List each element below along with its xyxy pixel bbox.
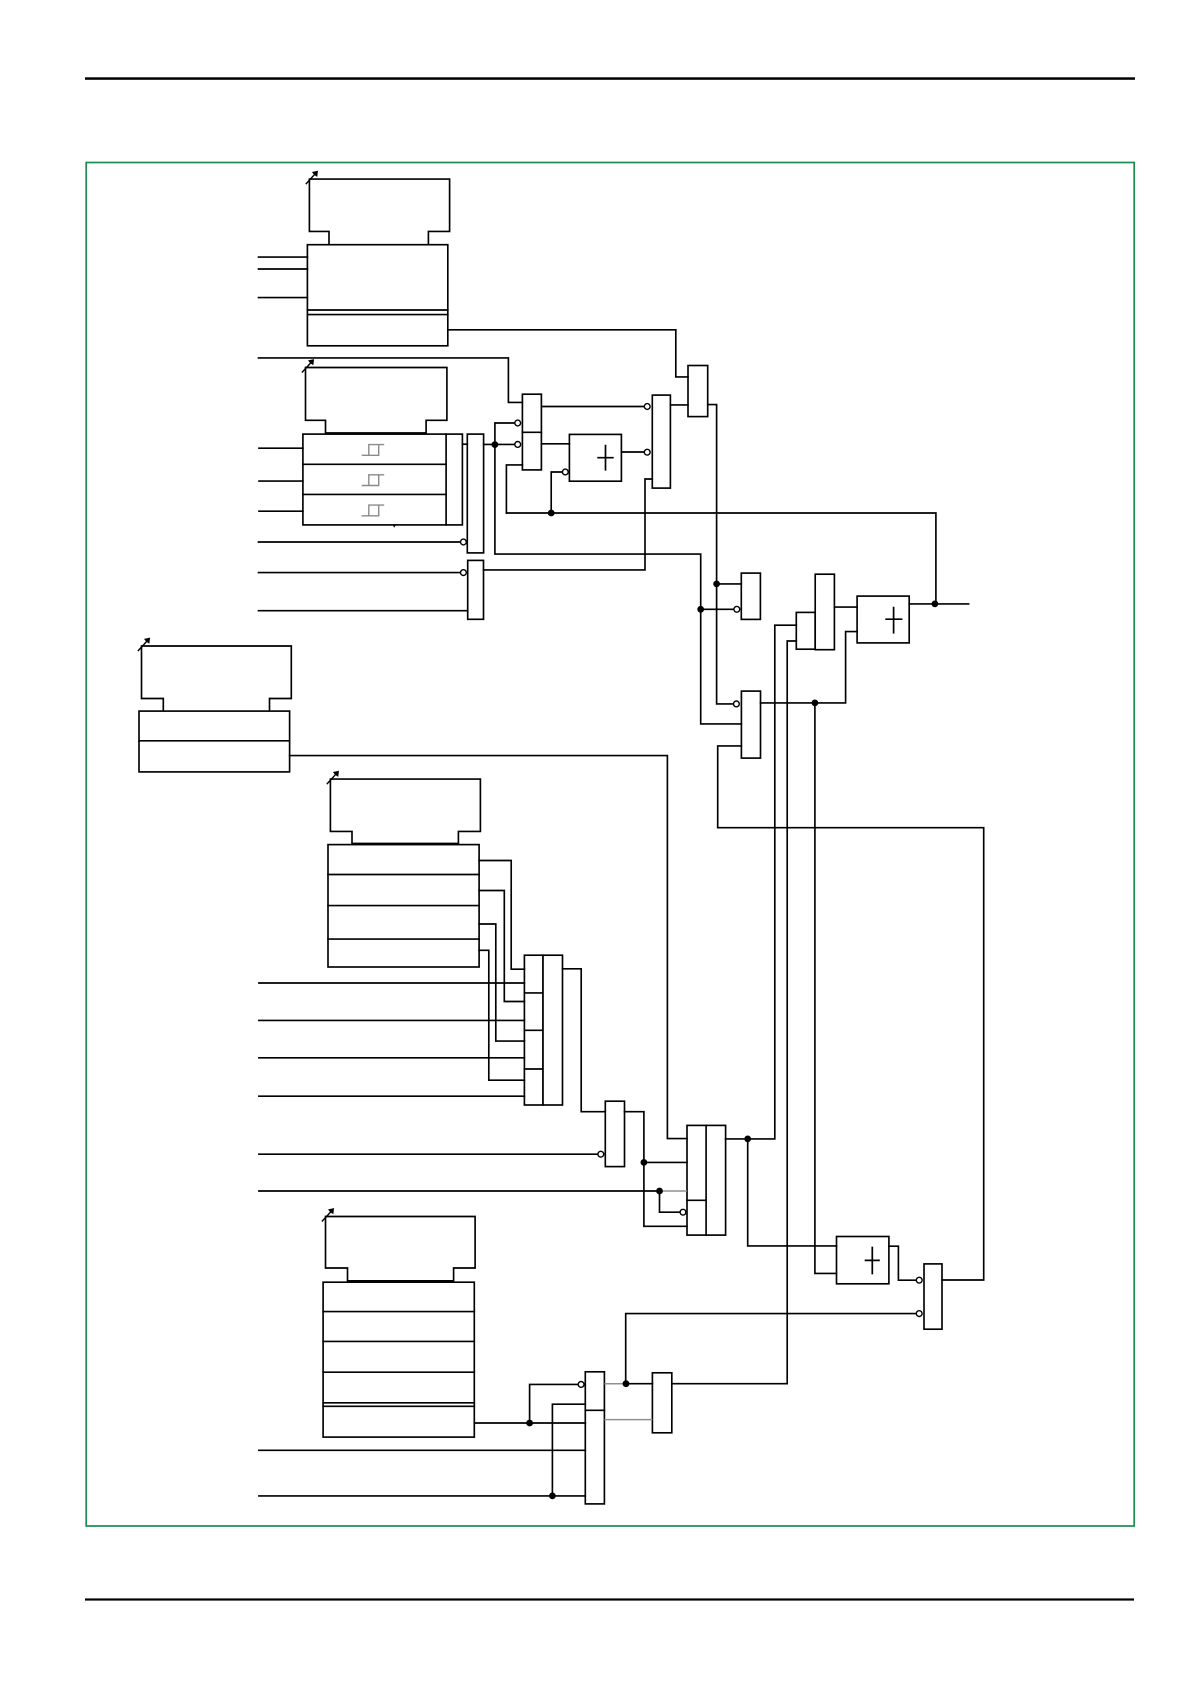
U7 cell divider xyxy=(522,431,541,433)
junction node I xyxy=(744,1136,751,1143)
wire input h to bubble of U5 xyxy=(259,541,461,543)
wire node C branch to U11 input xyxy=(717,583,742,585)
edge selector block U6 xyxy=(468,560,484,619)
wire U19 row1 output to U20 cell1 xyxy=(479,861,524,970)
hysteresis glyph U4 row1 xyxy=(362,445,385,456)
wire U7 upper output to bubble of U9 xyxy=(541,406,643,408)
U23 left cell divider xyxy=(687,1199,706,1201)
mux block U10 xyxy=(688,366,708,417)
wire input j to U6 xyxy=(259,610,468,612)
wire node B branch up to bubble of adder U8 xyxy=(551,472,562,513)
U2 double separator line upper xyxy=(307,309,447,311)
wire adder U8 output to bubble of U9 xyxy=(621,451,643,453)
wire U7 lower output to adder U8 xyxy=(541,443,569,445)
U19 row divider 1 xyxy=(328,874,479,876)
U23 column divider xyxy=(705,1125,707,1235)
inverter bubble U12 xyxy=(734,701,740,707)
wire gray node H to U23 xyxy=(660,1190,688,1192)
preload shadow register hat U3 xyxy=(306,368,447,433)
wire U19 row3 output to U20 cell3 xyxy=(479,924,524,1041)
wire input k to U20 cell1 xyxy=(259,982,525,984)
U27 double line lower xyxy=(323,1405,474,1407)
wire node K branch up to bubble of U28 xyxy=(530,1384,578,1423)
register file U27 (4 rows) xyxy=(323,1282,474,1437)
wire U9 output to U10 xyxy=(670,404,688,406)
preload shadow register hat U26 xyxy=(326,1217,476,1281)
wire U12 output to node E and up to adder U15 lower input xyxy=(761,632,858,703)
wire adder U24 output to bubble of U25 xyxy=(889,1246,916,1280)
inverter bubble adder U8 xyxy=(562,469,568,475)
U27 row divider 1 xyxy=(323,1311,474,1313)
wire input e to U4 row1 xyxy=(259,447,303,449)
wire input g to U4 row3 xyxy=(259,510,303,512)
inverter bubble U7 lower xyxy=(515,442,521,448)
wire node G branch to U23 xyxy=(644,1161,687,1163)
wire U5 output to node A and bubble of U7 lower cell xyxy=(484,443,515,445)
wire gray U28 lower output to U29 xyxy=(604,1419,652,1421)
U27 row divider 2 xyxy=(323,1340,474,1342)
preload arrow on hat U16 xyxy=(138,642,147,651)
junction node H xyxy=(656,1188,663,1195)
gate block U29 xyxy=(652,1373,671,1433)
inverter bubble U28 xyxy=(578,1382,584,1388)
wire node J to U29 xyxy=(626,1383,652,1385)
wire U6 output up to U9 bottom input xyxy=(484,479,653,570)
preload arrow on hat U18 xyxy=(327,775,336,784)
inverter bubble U11 xyxy=(734,606,740,612)
wire U27 output to U28 with node K branch xyxy=(474,1422,585,1424)
wire input c to U2 xyxy=(259,297,308,299)
wire node E branch down to adder U24 lower input xyxy=(815,703,837,1274)
wire input m to U20 cell3 xyxy=(259,1057,525,1059)
junction node F xyxy=(932,601,939,608)
mux output column U21 xyxy=(543,955,563,1105)
U17 divider xyxy=(139,740,290,742)
mux block U13 xyxy=(796,612,815,649)
wire node D branch to bubble of U11 xyxy=(701,608,734,610)
figure border frame xyxy=(86,163,1134,1527)
wire input n to U20 cell4 xyxy=(259,1095,525,1097)
preload arrow on hat U1 xyxy=(306,175,315,184)
junction node J xyxy=(623,1380,630,1387)
gate block U25 xyxy=(924,1264,942,1329)
adder U24 xyxy=(837,1237,889,1284)
U4 row divider 2 xyxy=(303,493,446,495)
preload shadow register hat U16 xyxy=(142,646,292,711)
junction node G xyxy=(641,1159,648,1166)
wire gray U28 upper output to node J xyxy=(604,1383,626,1385)
hysteresis glyph U4 row3 xyxy=(362,505,385,516)
gate block U28 (two cells) xyxy=(585,1372,604,1504)
wire node L branch up to U28 xyxy=(552,1404,585,1496)
wire U21 output down to U22 input xyxy=(563,969,606,1112)
inverter bubble U6 xyxy=(461,570,467,576)
wire branch to U7 lower cell plain input xyxy=(506,465,522,513)
wire input a to U2 xyxy=(259,256,308,258)
junction node D xyxy=(697,606,704,613)
gate block U11 xyxy=(741,573,760,619)
junction node L xyxy=(549,1493,556,1500)
wire U17 output down to U23 input xyxy=(290,756,687,1139)
register block U17 xyxy=(139,711,290,772)
preload shadow register hat U18 xyxy=(330,779,480,843)
inverter bubble U25 upper xyxy=(916,1277,922,1283)
register file U19 (4 rows) xyxy=(328,845,479,967)
wire adder U15 output to node F and open end xyxy=(909,603,968,605)
wire U14 output to adder U15 xyxy=(834,606,857,608)
U20 cell divider 2 xyxy=(524,1029,543,1031)
gate block U22 xyxy=(605,1101,624,1166)
wire U25 output feedback to U12 input xyxy=(718,746,984,1280)
U19 row divider 3 xyxy=(328,938,479,940)
register block U2 (counter) xyxy=(307,245,447,346)
clock wedge tick under U4 xyxy=(393,525,396,528)
wire input d to U7 top cell xyxy=(259,358,523,403)
inverter bubble U25 lower xyxy=(916,1311,922,1317)
gate block U9 xyxy=(652,395,670,488)
wire U4 output stub to U5 xyxy=(462,443,467,445)
wire input r to U28 xyxy=(259,1449,585,1451)
adder U15 xyxy=(857,596,909,643)
wire U19 row2 output to U20 cell2 xyxy=(479,891,524,1002)
wire node H branch down to bubble of U23 xyxy=(660,1191,680,1212)
preload shadow register hat U1 xyxy=(309,179,449,245)
wire input b to U2 xyxy=(259,268,308,270)
wire U23 output to node I and up to U13 input xyxy=(726,625,797,1139)
wire node J up to bubble 2 of U25 xyxy=(626,1314,916,1384)
junction node E xyxy=(812,700,819,707)
U19 row divider 2 xyxy=(328,905,479,907)
U28 cell divider xyxy=(585,1409,604,1411)
top rule xyxy=(85,77,1135,80)
preload arrow on hat U26 xyxy=(322,1212,331,1221)
mux block U7 (two cells) xyxy=(522,394,541,470)
wire U22 output down to U23 with node G branch xyxy=(625,1112,688,1227)
mux column U20 (4 cells) xyxy=(524,955,543,1105)
inverter bubble U5 xyxy=(461,539,467,545)
wire input o to bubble of U22 xyxy=(259,1153,598,1155)
wire node A branch down to U12 plain input xyxy=(495,445,742,724)
U27 double line upper xyxy=(323,1402,474,1404)
U27 row divider 3 xyxy=(323,1371,474,1373)
adder U8 xyxy=(569,434,621,481)
plus sign of adder U8 xyxy=(597,445,613,471)
bottom rule xyxy=(85,1598,1134,1600)
wire input p to node H xyxy=(259,1190,660,1192)
inverter bubble U7 upper xyxy=(515,420,521,426)
gate block U12 xyxy=(741,691,760,758)
wire long net at y513 from U7 input corner to adder U15 output node xyxy=(506,513,936,604)
wire input i to bubble of U6 xyxy=(259,572,461,574)
wire U10 output down to bubble of U12 xyxy=(708,405,733,704)
edge selector block U5 xyxy=(467,434,483,553)
wire node I branch down to adder U24 input xyxy=(748,1139,837,1246)
wire input f to U4 row2 xyxy=(259,480,303,482)
hysteresis glyph U4 row2 xyxy=(362,475,385,486)
U2 double separator line lower xyxy=(307,314,447,316)
wire node A branch up to bubble of U7 upper cell xyxy=(495,423,515,445)
mux block U14 xyxy=(815,574,834,650)
inverter bubble U9 upper xyxy=(644,404,650,410)
inverter bubble U22 xyxy=(598,1151,604,1157)
junction node K xyxy=(526,1420,533,1427)
wire U2 output to U10 xyxy=(448,330,688,377)
plus sign of adder U15 xyxy=(885,607,902,634)
junction node A xyxy=(492,441,499,448)
U4 row divider 1 xyxy=(303,463,446,465)
wire U19 row4 output to U20 cell4 xyxy=(479,950,524,1080)
inverter bubble U23 xyxy=(680,1209,686,1215)
wire U29 output up to U13 lower input xyxy=(672,641,797,1384)
preload arrow on hat U3 xyxy=(302,363,311,372)
U20 cell divider 3 xyxy=(524,1068,543,1070)
junction node C xyxy=(713,581,720,588)
input filter block U4 (3 channels) xyxy=(303,434,463,525)
U4 internal column divider xyxy=(445,434,447,525)
inverter bubble U9 lower xyxy=(644,449,650,455)
junction node B xyxy=(548,510,555,517)
wire input l to U20 cell2 xyxy=(259,1019,525,1021)
mux block U23 (two columns) xyxy=(687,1125,726,1235)
plus sign of adder U24 xyxy=(865,1247,880,1275)
U20 cell divider 1 xyxy=(524,992,543,994)
wire input s to U28 lower with node L xyxy=(259,1495,585,1497)
